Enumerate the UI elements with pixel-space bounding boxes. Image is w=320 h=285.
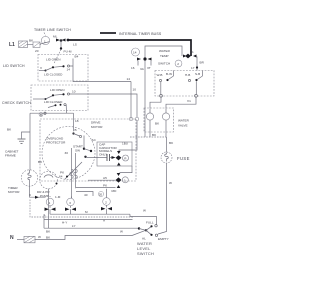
svg-text:64: 64: [59, 175, 63, 179]
timer cam circled 2 (temp): [175, 60, 182, 67]
terminal B below switch box: [39, 113, 43, 117]
svg-text:B4: B4: [75, 55, 79, 59]
timer motor circle: [21, 170, 37, 186]
svg-text:WATER: WATER: [178, 119, 190, 123]
connector block on L1 lead: [19, 41, 28, 48]
lid switch 1 blade and contacts: [45, 70, 47, 72]
svg-text:1BU: 1BU: [122, 142, 128, 146]
wire 14 drop to motor: [130, 82, 132, 119]
svg-text:3T: 3T: [147, 66, 151, 70]
fuse symbol: [161, 152, 172, 163]
wire lid switch output to overload: [65, 105, 67, 114]
svg-text:SWITCH: SWITCH: [158, 62, 170, 66]
wire timer buss branch upper right: [145, 46, 182, 59]
harness run to fuse: [130, 136, 167, 138]
svg-text:TIMER LINE SWITCH: TIMER LINE SWITCH: [34, 28, 71, 32]
rail to water level full contact: [130, 214, 157, 225]
svg-text:LID OPEN: LID OPEN: [46, 58, 60, 62]
valve solenoid coil 1: [146, 113, 153, 120]
svg-text:2: 2: [177, 62, 179, 66]
svg-text:BK: BK: [169, 141, 174, 145]
svg-text:R: R: [124, 157, 127, 161]
svg-text:3: 3: [69, 201, 71, 205]
svg-text:BK: BK: [38, 160, 43, 164]
svg-text:ONLY: ONLY: [99, 153, 107, 157]
svg-text:V: V: [40, 66, 43, 70]
svg-text:W: W: [38, 235, 41, 239]
timer line switch contact ML: [40, 42, 50, 45]
timer output rail: [50, 213, 130, 215]
svg-text:PK: PK: [103, 184, 108, 188]
wire down from cluster to valve return: [144, 69, 146, 138]
wire temp switch to valve coil 1: [150, 97, 161, 108]
timer cam circled 4: [132, 48, 140, 56]
motor plug circled terminal upper: [123, 155, 129, 161]
wire feed from lid switch lead to plug: [119, 121, 137, 151]
ground symbol cabinet: [18, 139, 26, 143]
neutral connector block: [17, 239, 24, 241]
temp switch bottom terminals: [161, 71, 203, 95]
svg-text:PROTECTOR: PROTECTOR: [46, 141, 66, 145]
svg-text:SW: SW: [75, 149, 80, 153]
svg-text:1: 1: [192, 50, 194, 54]
wire into fuse: [166, 137, 168, 152]
svg-text:BK: BK: [46, 236, 51, 240]
timer line switch circled cam: [41, 36, 49, 44]
wire timer motor to cam 1: [30, 186, 46, 197]
pump coil: [44, 175, 53, 178]
motor terminal circles on box top: [129, 117, 133, 121]
svg-text:BK: BK: [46, 230, 51, 234]
buss drop junction diamond 1: [183, 54, 197, 59]
svg-text:3A: 3A: [140, 67, 145, 71]
wire pump drop: [48, 189, 50, 228]
svg-text:SWITCH: SWITCH: [137, 251, 154, 256]
legend line internal timer buss: [100, 32, 116, 34]
svg-text:BK: BK: [7, 128, 12, 132]
lid switch 2 blade and contacts: [45, 98, 47, 100]
rail 2: [44, 219, 133, 221]
buss tap node: [60, 39, 63, 42]
svg-text:WATER: WATER: [159, 49, 171, 53]
wire from diamond to water temp switch: [196, 57, 198, 71]
svg-text:LID SWITCH: LID SWITCH: [3, 64, 25, 68]
svg-text:17: 17: [191, 66, 195, 70]
svg-text:FRAME: FRAME: [5, 154, 16, 158]
svg-text:M: M: [85, 210, 88, 214]
svg-text:LS: LS: [73, 43, 77, 47]
svg-text:MD: MD: [112, 189, 118, 193]
wire start switch to capacitor: [86, 156, 88, 159]
svg-text:W: W: [169, 181, 172, 185]
pump circle: [40, 171, 58, 189]
wire L1 to timer line switch: [28, 43, 42, 45]
svg-text:BK: BK: [152, 133, 157, 137]
wire cap box edge loop to lower plug: [120, 166, 133, 173]
svg-text:LY: LY: [72, 224, 76, 228]
svg-text:1: 1: [49, 201, 51, 205]
svg-text:V1: V1: [187, 99, 191, 103]
svg-text:20: 20: [99, 192, 103, 196]
svg-text:MOTOR: MOTOR: [8, 190, 20, 194]
svg-text:INTERNAL TIMER BUSS: INTERNAL TIMER BUSS: [119, 32, 162, 36]
third motor lead wire: [76, 187, 116, 189]
connector cluster node: [137, 58, 152, 61]
svg-text:CHECK SWITCH: CHECK SWITCH: [2, 101, 31, 105]
timer cam switch 1: [46, 198, 54, 206]
svg-text:PU-M: PU-M: [64, 50, 72, 54]
junction node buss start: [67, 39, 70, 42]
water level switch common blade: [132, 230, 146, 235]
svg-text:A5: A5: [103, 176, 107, 180]
capacitor models only box: [97, 142, 132, 166]
lid switch 2 common wire: [33, 98, 45, 100]
svg-text:MOTOR: MOTOR: [91, 125, 103, 129]
timer enclosure dashed outline: [30, 200, 134, 218]
wire 10 from open contact to motor area: [70, 94, 137, 117]
drive motor circle: [42, 127, 95, 180]
svg-text:B: B: [75, 128, 77, 132]
wire overload to start switch: [83, 136, 85, 148]
svg-text:AL: AL: [142, 237, 146, 241]
svg-text:BR: BR: [200, 61, 205, 65]
svg-text:16: 16: [131, 66, 135, 70]
svg-text:LID OPEN: LID OPEN: [50, 88, 64, 92]
timer cam switch 3: [103, 198, 111, 206]
svg-text:H-B: H-B: [185, 73, 190, 77]
svg-text:LID CLOSED: LID CLOSED: [44, 100, 63, 104]
water level empty contact: [150, 234, 152, 236]
svg-text:L1: L1: [9, 42, 15, 48]
drive motor assembly box: [40, 119, 136, 181]
svg-text:FULL: FULL: [146, 221, 154, 225]
connector drop wires with labels: [138, 61, 151, 69]
lid switch box 1: [38, 55, 88, 82]
winding lead wires: [72, 148, 76, 198]
svg-text:ML: ML: [53, 35, 58, 39]
svg-text:3: 3: [29, 193, 31, 197]
svg-text:B: B: [40, 113, 42, 117]
wire fuse down to water level switch: [158, 163, 167, 234]
svg-text:14: 14: [127, 77, 131, 81]
wire cam 2 top run: [76, 192, 93, 197]
svg-text:VALVE: VALVE: [178, 124, 188, 128]
water valve box: [144, 108, 174, 132]
wire motor lead to lower plug: [88, 179, 116, 181]
svg-text:AC: AC: [92, 138, 97, 142]
svg-text:20: 20: [35, 49, 39, 53]
timer motor coil: [28, 170, 31, 186]
svg-text:18: 18: [75, 119, 79, 123]
connector block 2 on L1 lead: [33, 42, 40, 48]
svg-text:H-Y: H-Y: [62, 221, 67, 225]
svg-text:N: N: [10, 235, 14, 241]
valve return wire to buss line: [150, 132, 166, 137]
lid switch 1 common wire: [39, 70, 45, 72]
rail 3 pump return: [44, 227, 140, 229]
capacitor connector to motor plug: [112, 155, 122, 160]
junction dot near windings: [66, 176, 68, 178]
svg-text:1-M: 1-M: [55, 195, 61, 199]
svg-text:14: 14: [67, 68, 71, 72]
svg-text:PK: PK: [60, 171, 65, 175]
svg-text:DRIVE: DRIVE: [91, 121, 100, 125]
capacitor C1: [87, 157, 107, 159]
svg-text:TEMP: TEMP: [160, 54, 169, 58]
svg-text:W: W: [143, 209, 146, 213]
svg-text:10: 10: [133, 88, 137, 92]
start switch actuator blade: [65, 162, 82, 179]
svg-text:EMPTY: EMPTY: [158, 237, 169, 241]
svg-text:BK: BK: [155, 122, 160, 126]
valve solenoid coil 2: [162, 113, 169, 120]
wire left drop to timer motor: [29, 113, 31, 170]
timer cam switch 2: [67, 198, 75, 206]
svg-text:W: W: [120, 230, 123, 234]
svg-text:FUSE: FUSE: [177, 156, 190, 161]
svg-text:14: 14: [133, 51, 137, 55]
wire buss tap down to lid switch: [60, 41, 62, 49]
svg-text:W-B: W-B: [157, 73, 163, 77]
svg-text:B-W: B-W: [166, 72, 172, 76]
svg-text:A: A: [103, 219, 106, 223]
svg-text:1: 1: [124, 178, 126, 182]
wire temp switch to valve coil 2: [166, 97, 196, 108]
svg-text:2: 2: [105, 200, 107, 204]
svg-text:40: 40: [84, 193, 88, 197]
motor plug circled terminal lower: [116, 173, 122, 183]
svg-text:LID CLOSED: LID CLOSED: [44, 73, 63, 77]
svg-text:10: 10: [72, 90, 76, 94]
lid switch box 2: [31, 85, 88, 111]
svg-text:30: 30: [65, 151, 69, 155]
svg-text:S-B: S-B: [195, 72, 200, 76]
lid switch 2 closed contact pair: [48, 106, 55, 108]
internal timer buss (thick): [68, 40, 191, 56]
winding coil bumps: [70, 170, 77, 179]
water temp switch box: [155, 71, 214, 97]
